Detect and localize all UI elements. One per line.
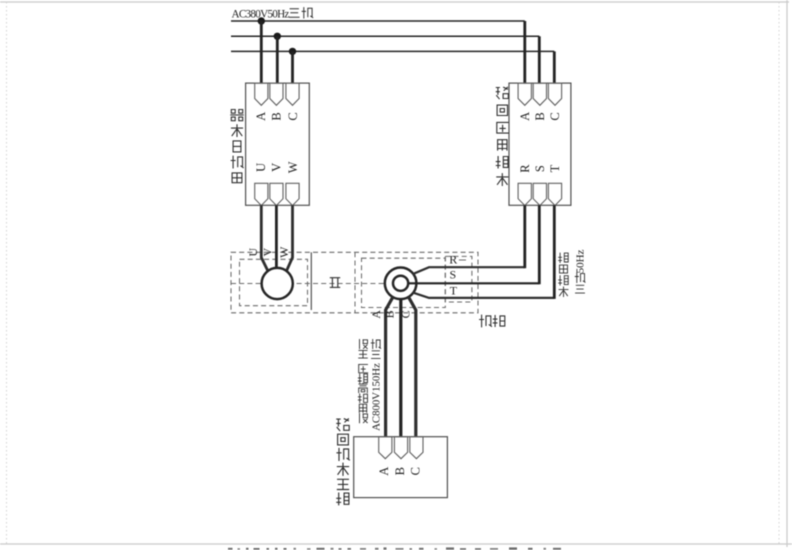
svg-text:V: V: [261, 248, 275, 257]
svg-text:C: C: [286, 112, 300, 120]
svg-text:A: A: [254, 112, 268, 121]
svg-text:V: V: [270, 163, 284, 172]
svg-text:T: T: [548, 164, 562, 172]
svg-text:C: C: [548, 112, 562, 120]
svg-text:W: W: [286, 161, 300, 173]
svg-text:A: A: [369, 310, 383, 319]
svg-text:C: C: [409, 467, 423, 475]
svg-text:C: C: [398, 310, 412, 318]
svg-text:S: S: [533, 165, 547, 172]
svg-text:B: B: [270, 112, 284, 120]
svg-text:R: R: [449, 253, 457, 267]
svg-text:B: B: [533, 112, 547, 120]
svg-text:U: U: [254, 163, 268, 172]
svg-text:W: W: [277, 246, 291, 258]
svg-text:A: A: [518, 112, 532, 121]
svg-text:A: A: [377, 467, 391, 476]
svg-text:T: T: [450, 283, 458, 297]
svg-text:AC800V150Hz: AC800V150Hz: [371, 363, 383, 431]
svg-text:U: U: [246, 248, 260, 257]
svg-text:R: R: [518, 164, 532, 173]
svg-text:AC380V50Hz: AC380V50Hz: [232, 9, 290, 21]
svg-text:B: B: [393, 467, 407, 475]
svg-text:B: B: [382, 310, 396, 318]
svg-text:S: S: [450, 267, 457, 281]
svg-text:50Hz: 50Hz: [575, 249, 587, 273]
